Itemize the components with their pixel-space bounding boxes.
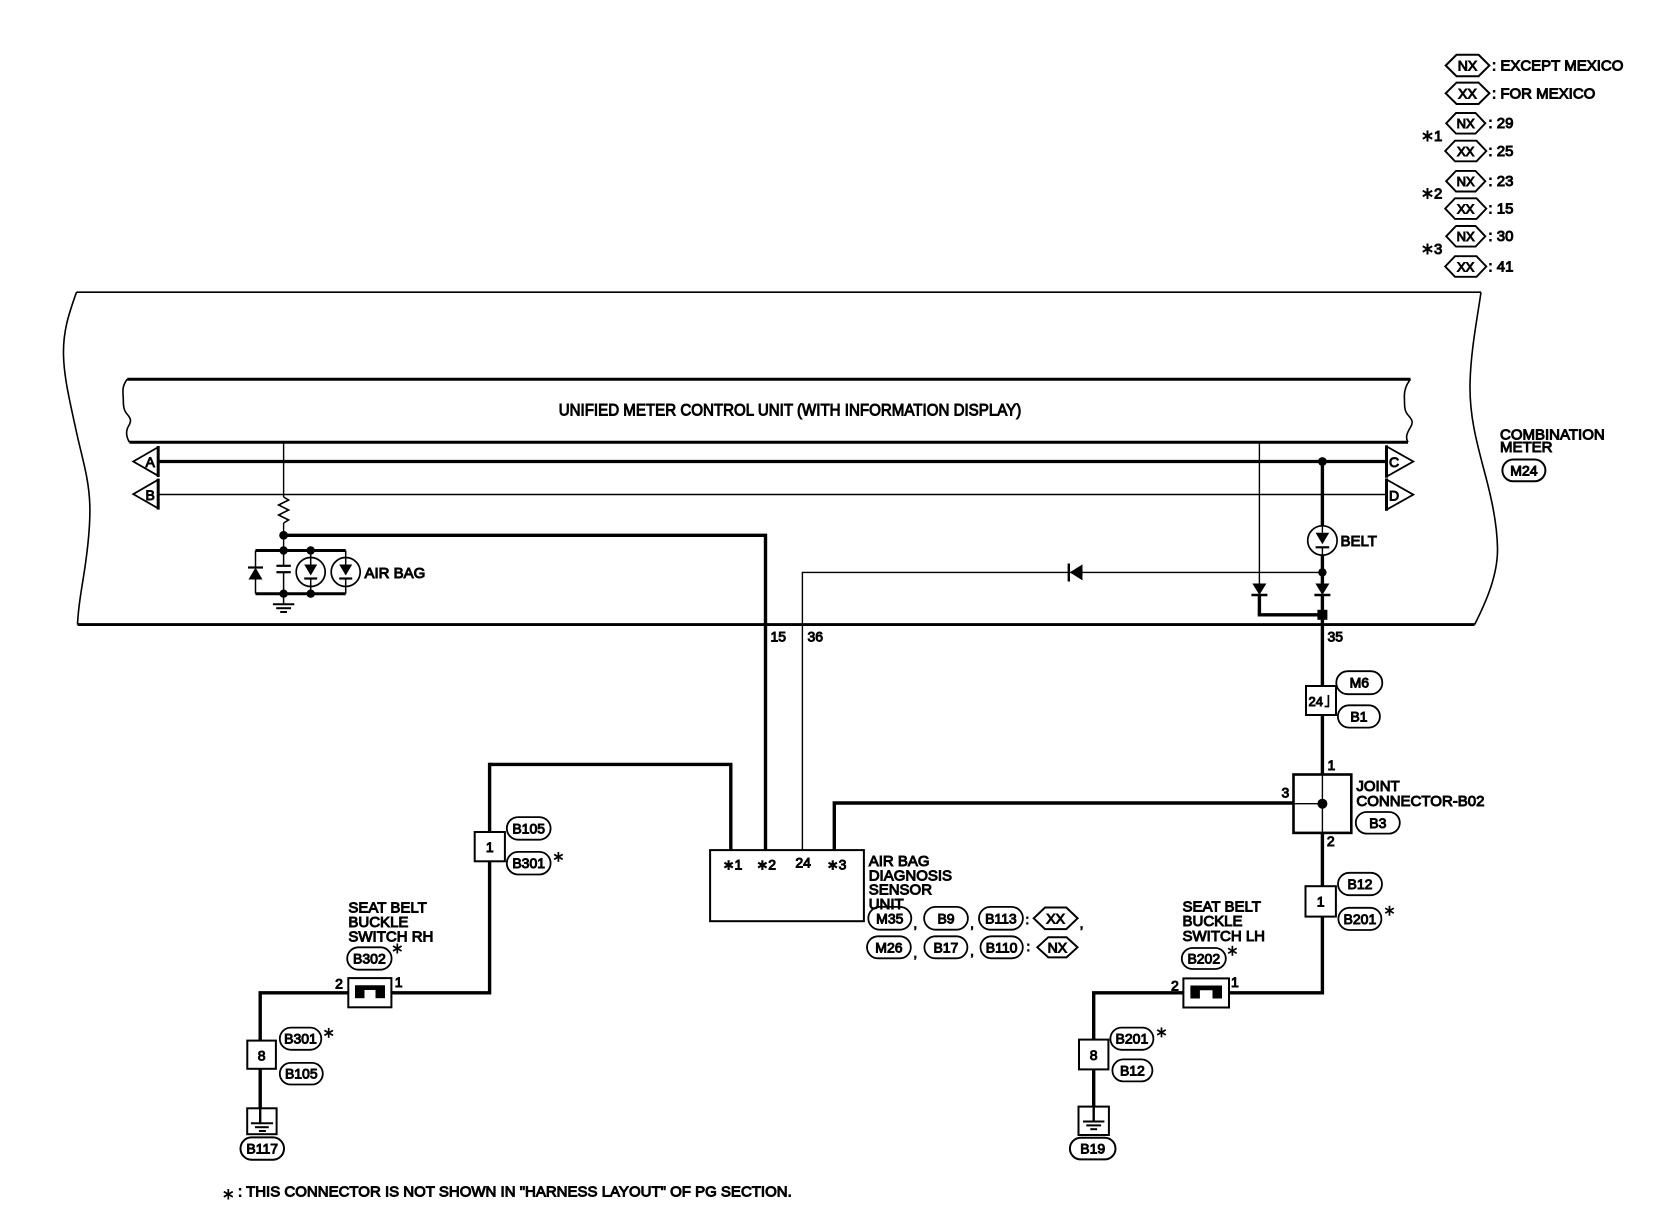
svg-text:XX: XX <box>1457 259 1475 274</box>
wire: diode to pin 35 exit and down to 24J <box>1321 595 1324 686</box>
connector box 1 (LH) <box>1306 886 1336 916</box>
diode (zener, left branch of air bag cluster) <box>248 551 263 594</box>
connector oval B110 <box>981 936 1023 958</box>
connector triangle C <box>1387 445 1414 477</box>
wire: thick to pin 15 exit <box>284 535 766 850</box>
footnote <box>224 1184 792 1201</box>
svg-text:3: 3 <box>1434 241 1442 258</box>
inline connector box 24J <box>1306 686 1336 715</box>
svg-text:: FOR MEXICO: : FOR MEXICO <box>1492 85 1595 102</box>
svg-text:∗2: ∗2 <box>757 857 777 873</box>
seat belt buckle switch LH <box>1171 974 1239 1008</box>
svg-text:XX: XX <box>1458 85 1477 101</box>
svg-text:36: 36 <box>808 629 824 645</box>
wire: switch LH to connector 8 <box>1094 993 1184 1040</box>
wire: RH drop from horizontal to *1 <box>490 764 731 850</box>
connector oval B19 <box>1070 1138 1116 1160</box>
svg-text:∗3: ∗3 <box>827 857 847 873</box>
junction dot (15-wire tap) <box>279 531 288 540</box>
svg-text:NX: NX <box>1048 939 1068 955</box>
wire: connector 8 RH to ground <box>259 1069 262 1109</box>
connector box 8 (LH) <box>1079 1040 1108 1070</box>
svg-text:1: 1 <box>1434 128 1442 145</box>
unified meter control unit box (torn edges) <box>123 379 1412 442</box>
svg-text:1: 1 <box>1231 974 1239 990</box>
legend hexagon XX: 15 <box>1445 198 1513 219</box>
connector triangle D <box>1387 478 1414 510</box>
svg-text:XX: XX <box>1457 144 1475 159</box>
svg-text:B117: B117 <box>246 1141 278 1157</box>
svg-text:B202: B202 <box>1187 950 1220 966</box>
legend hexagon NX: 30 <box>1446 226 1513 247</box>
svg-text:35: 35 <box>1328 629 1344 645</box>
svg-text:: 25: : 25 <box>1488 143 1513 160</box>
LED lamp 1 (AIR BAG) <box>296 551 325 594</box>
svg-text:M6: M6 <box>1350 675 1370 691</box>
wire: resistor to junction <box>283 523 285 551</box>
svg-text:XX: XX <box>1457 201 1475 216</box>
svg-text:D: D <box>1389 487 1399 503</box>
svg-text:,: , <box>970 944 974 959</box>
connector oval B113 <box>979 907 1023 930</box>
wire: main vertical from line C to BELT lamp <box>1321 462 1324 527</box>
svg-text:1: 1 <box>1328 757 1336 773</box>
svg-text:∗1: ∗1 <box>723 857 743 873</box>
air bag cluster bottom rail <box>256 592 346 595</box>
connector oval B12 (upper) <box>1338 873 1382 895</box>
svg-text:UNIFIED METER CONTROL UNIT (WI: UNIFIED METER CONTROL UNIT (WITH INFORMA… <box>559 401 1022 420</box>
legend *2 <box>1423 186 1443 203</box>
svg-text:: 23: : 23 <box>1488 173 1513 190</box>
svg-text:B302: B302 <box>353 950 386 966</box>
air bag cluster top rail <box>256 549 346 552</box>
connector box 1 (RH) <box>475 832 505 861</box>
BELT lamp LED <box>1308 526 1337 555</box>
wire: resistor drop from inner box <box>283 442 285 497</box>
air bag diagnosis sensor unit box <box>710 850 864 921</box>
wire: below left diode to jog <box>1259 595 1322 615</box>
connector oval B301 (8 box) + asterisk <box>280 1028 333 1050</box>
junction dot bottom rail mid <box>307 590 315 598</box>
wire: switch RH to connector 8 <box>260 993 348 1041</box>
svg-text:8: 8 <box>258 1048 266 1064</box>
svg-text:: EXCEPT MEXICO: : EXCEPT MEXICO <box>1492 58 1623 75</box>
junction dot on 36 line at main vertical <box>1318 568 1326 576</box>
svg-text:AIR BAG: AIR BAG <box>365 565 426 582</box>
legend hexagon XX: 41 <box>1445 256 1513 277</box>
connector triangle A <box>133 446 158 477</box>
svg-text:24: 24 <box>795 855 811 871</box>
svg-text:B201: B201 <box>1344 911 1377 927</box>
svg-text:: THIS CONNECTOR IS NOT SHOWN: : THIS CONNECTOR IS NOT SHOWN IN "HARNES… <box>238 1184 792 1201</box>
connector oval B105 (8 box) <box>280 1063 323 1085</box>
wire: 24J to joint connector <box>1321 715 1324 775</box>
svg-text:1: 1 <box>395 974 403 990</box>
svg-text:B301: B301 <box>284 1031 317 1047</box>
legend hexagon NX: EXCEPT MEXICO <box>1446 55 1624 76</box>
svg-text::: : <box>1027 939 1031 954</box>
junction dot bottom rail left <box>279 590 287 598</box>
svg-text:B105: B105 <box>512 820 545 836</box>
legend hexagon NX: 29 <box>1446 113 1513 134</box>
seat belt buckle switch RH <box>335 974 403 1007</box>
connector oval M26 <box>867 936 911 958</box>
svg-text:8: 8 <box>1090 1047 1098 1063</box>
svg-text:CONNECTOR-B02: CONNECTOR-B02 <box>1356 793 1484 810</box>
svg-text:B113: B113 <box>985 910 1017 926</box>
svg-text:15: 15 <box>771 629 787 645</box>
resistor R (meter internal) <box>279 497 289 523</box>
svg-text:NX: NX <box>1458 58 1478 74</box>
wire: connector 1 down and to switch LH <box>1229 917 1322 993</box>
wire: line B-D (thin) <box>158 494 1386 496</box>
connector oval B201 (8 box) + asterisk <box>1110 1027 1165 1049</box>
connector oval M6 <box>1336 671 1382 694</box>
svg-text:,: , <box>1080 916 1084 931</box>
svg-text:: 30: : 30 <box>1488 228 1513 245</box>
joint connector B02 box <box>1294 775 1352 833</box>
svg-text:2: 2 <box>1327 833 1335 849</box>
ground B19 <box>1079 1107 1109 1135</box>
svg-text:: 41: : 41 <box>1488 258 1513 275</box>
wire: 36 line (thin) with diode <box>802 572 1322 850</box>
wire: connector 1 RH down to switch RH <box>391 861 489 993</box>
svg-text:1: 1 <box>486 839 494 855</box>
svg-text:BELT: BELT <box>1341 533 1377 550</box>
wire: sensor unit *3 to joint connector pin 3 <box>834 803 1293 850</box>
svg-text:,: , <box>914 946 918 961</box>
svg-text:B12: B12 <box>1348 876 1373 892</box>
svg-text:B17: B17 <box>933 939 958 955</box>
ground (meter internal) <box>273 594 294 612</box>
svg-text:,: , <box>970 916 974 931</box>
wire: line A-C (thick) <box>158 460 1386 463</box>
connector triangle B <box>133 479 158 510</box>
svg-text:: 29: : 29 <box>1488 115 1513 132</box>
legend *1 <box>1423 128 1443 145</box>
svg-text:B105: B105 <box>285 1066 318 1082</box>
svg-text:: 15: : 15 <box>1488 200 1513 217</box>
svg-text:B19: B19 <box>1080 1141 1105 1157</box>
svg-text:SWITCH RH: SWITCH RH <box>348 929 433 946</box>
junction dot top rail left <box>279 546 287 554</box>
connector oval B105 (upper) <box>507 817 551 840</box>
wire: joint connector down to connector 1 <box>1321 833 1324 886</box>
connector oval B301 (lower) + asterisk <box>507 852 563 875</box>
connector oval B3 <box>1356 812 1400 834</box>
legend hexagon XX: FOR MEXICO <box>1446 83 1596 104</box>
wire: BELT lamp to down diode <box>1321 555 1324 583</box>
hexagon XX (sensor row 1) <box>1034 908 1078 930</box>
connector oval B302 + asterisk <box>347 944 401 970</box>
svg-text:METER: METER <box>1500 439 1553 456</box>
junction square at jog <box>1317 610 1327 620</box>
legend hexagon XX: 25 <box>1445 141 1513 162</box>
svg-text:B12: B12 <box>1120 1062 1145 1078</box>
wire: thin drop to left diode <box>1258 442 1260 583</box>
svg-text:NX: NX <box>1457 229 1475 244</box>
svg-text:B1: B1 <box>1350 708 1367 724</box>
ground B117 <box>247 1108 276 1134</box>
svg-text:,: , <box>914 916 918 931</box>
connector oval B201 (lower) + asterisk <box>1338 906 1393 930</box>
connector oval B117 <box>241 1137 285 1159</box>
svg-text:NX: NX <box>1457 116 1475 131</box>
svg-text::: : <box>1026 912 1030 927</box>
svg-text:2: 2 <box>1434 186 1442 203</box>
combination meter outer box (torn edges) <box>63 292 1497 624</box>
svg-text:B301: B301 <box>512 855 545 871</box>
svg-text:B: B <box>146 487 155 503</box>
connector oval B1 <box>1338 705 1380 727</box>
LED lamp 2 (AIR BAG) <box>331 551 360 594</box>
wire: connector 8 to ground LH <box>1092 1069 1095 1106</box>
diode (blocking, on 36 line, pointing left) <box>1069 564 1083 582</box>
connector oval M24 <box>1502 460 1545 482</box>
svg-text:A: A <box>146 454 156 470</box>
legend hexagon NX: 23 <box>1446 171 1513 192</box>
svg-text:M26: M26 <box>875 939 902 955</box>
svg-text:2: 2 <box>335 975 343 991</box>
svg-text:NX: NX <box>1457 174 1475 189</box>
connector oval B202 + asterisk <box>1182 946 1237 969</box>
connector oval M35 <box>868 907 911 930</box>
svg-text:B9: B9 <box>937 910 954 926</box>
svg-text:M24: M24 <box>1510 462 1537 478</box>
connector oval B9 <box>924 907 968 930</box>
svg-text:1: 1 <box>1317 894 1325 910</box>
capacitor (air bag cluster) <box>276 551 290 594</box>
svg-text:B3: B3 <box>1369 815 1386 831</box>
svg-text:24: 24 <box>1309 694 1323 709</box>
svg-text:C: C <box>1389 454 1399 470</box>
svg-text:XX: XX <box>1046 910 1065 926</box>
svg-text:B201: B201 <box>1116 1031 1149 1047</box>
svg-text:B110: B110 <box>986 939 1018 955</box>
diode (right, down-pointing) <box>1314 584 1330 596</box>
connector oval B12 (8 box) <box>1112 1059 1152 1081</box>
svg-text:SWITCH LH: SWITCH LH <box>1183 928 1266 945</box>
connector oval B17 <box>924 936 967 958</box>
diode (left, down-pointing) <box>1251 584 1267 596</box>
legend *3 <box>1423 241 1443 258</box>
connector box 8 (RH) <box>247 1041 276 1069</box>
wire: RH vertical from horizontal down to connector 1 <box>488 763 491 832</box>
hexagon NX (sensor row 2) <box>1037 937 1077 957</box>
svg-text:3: 3 <box>1282 785 1290 801</box>
junction dot on line C <box>1318 457 1327 466</box>
svg-text:M35: M35 <box>876 910 903 926</box>
junction dot top rail mid <box>307 546 315 554</box>
